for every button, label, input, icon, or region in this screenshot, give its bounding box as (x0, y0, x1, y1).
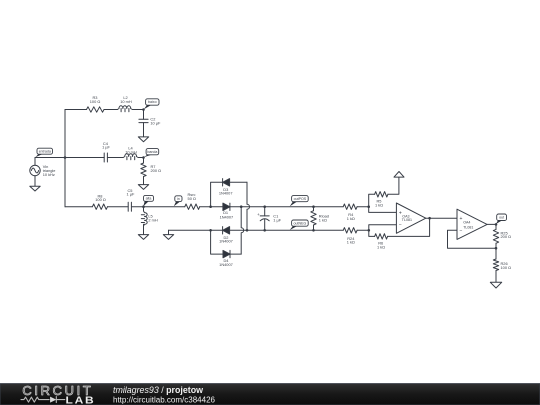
wire D3 loop left riser (211, 182, 223, 207)
resistor R4 (343, 204, 357, 221)
node C1 top (263, 205, 266, 208)
node OA4 output junction (495, 223, 498, 226)
inductor L4 (123, 146, 138, 160)
capacitor C1 (257, 207, 282, 231)
capacitor C4 (102, 141, 110, 162)
svg-text:10 µF: 10 µF (150, 121, 161, 126)
node baixo junction (142, 108, 145, 111)
wire row2 from source (35, 157, 104, 159)
wire D4 riser with hop (241, 207, 244, 254)
flag outPOS (290, 196, 309, 207)
resistor R3 (87, 95, 105, 112)
power VCC arrow (394, 172, 404, 178)
logo CIRCUIT text (22, 383, 93, 398)
diode D3 (219, 179, 233, 196)
node Rload bottom (312, 229, 315, 232)
svg-text:outNEG: outNEG (294, 221, 307, 225)
wire R6 left leg (369, 230, 375, 236)
wire L2-node (133, 109, 144, 111)
svg-text:−: − (459, 228, 462, 234)
flag banda (144, 149, 159, 158)
svg-text:in: in (177, 197, 180, 201)
op-amp OA3 (396, 203, 425, 233)
wire R4 to plus node (357, 206, 369, 208)
resistor R26 (493, 248, 511, 282)
flag alta (143, 195, 153, 206)
svg-text:1 kΩ: 1 kΩ (319, 218, 327, 223)
wire bottom rail left (169, 229, 223, 231)
ground (below R7) (138, 185, 148, 190)
svg-text:outPOS: outPOS (294, 197, 307, 201)
ground (below L5) (138, 235, 148, 240)
wire L5 top lead (143, 207, 145, 211)
ground (below C2) (138, 137, 148, 142)
logo LAB text (66, 396, 96, 405)
svg-text:1 kΩ: 1 kΩ (377, 245, 385, 250)
wire C4-L4 (107, 157, 123, 159)
wire D3 top right (230, 181, 247, 183)
logo resistor glyph (21, 397, 49, 402)
svg-text:1 kΩ: 1 kΩ (347, 216, 355, 221)
svg-text:1N4007: 1N4007 (219, 190, 233, 195)
wire Rsrc-bridge (200, 206, 211, 208)
diode D2 (219, 227, 233, 244)
resistor R8 (92, 193, 107, 209)
wire trunk vertical (64, 110, 66, 207)
svg-text:+: + (459, 216, 462, 222)
voltage source V1 (30, 158, 56, 187)
svg-text:+: + (257, 212, 260, 217)
node Rload top (312, 205, 315, 208)
svg-text:2 mH: 2 mH (148, 217, 157, 222)
resistor R25 (493, 224, 511, 248)
svg-text:100 Ω: 100 Ω (90, 99, 101, 104)
wire minus input (369, 225, 397, 231)
wire R8-C5 (108, 206, 129, 208)
svg-text:entrada: entrada (39, 149, 51, 153)
node D4 riser joins mid (240, 205, 243, 208)
wire bottom rail right (230, 229, 344, 231)
node alta junction (142, 205, 145, 208)
flag entrada (35, 148, 52, 157)
wire bottom rail ground stub (168, 230, 170, 234)
svg-text:1N4007: 1N4007 (220, 215, 234, 220)
wire C2 top lead (143, 110, 145, 120)
svg-text:200 Ω: 200 Ω (151, 168, 162, 173)
svg-text:out: out (499, 216, 504, 220)
node D3 riser joins bottom (246, 229, 249, 232)
svg-text:1 µF: 1 µF (273, 218, 281, 223)
ground (below R26) (490, 282, 501, 288)
svg-text:1N4007: 1N4007 (219, 239, 233, 244)
wire OA4 output (487, 223, 496, 225)
wire row3 left (65, 206, 92, 208)
wire mid rail (230, 206, 343, 208)
diode D4 (219, 250, 233, 267)
resistor R5 (375, 192, 388, 208)
resistor R24 (343, 228, 357, 245)
ground (bottom rail) (163, 235, 173, 240)
flag in (174, 196, 182, 207)
svg-text:10 kHz: 10 kHz (43, 172, 55, 177)
svg-text:−: − (399, 222, 402, 228)
diode D1 (220, 203, 234, 220)
wire row1 left (65, 109, 87, 111)
node OA3 output junction (428, 217, 431, 220)
svg-text:TL081: TL081 (402, 218, 412, 222)
resistor R7 (141, 163, 161, 177)
wire R6 to output riser (388, 218, 430, 236)
banner url line (113, 394, 215, 404)
banner background (0, 384, 540, 405)
wire OA3 out to OA4 (426, 217, 457, 219)
node C1 bottom (263, 229, 266, 232)
svg-text:banda: banda (147, 150, 157, 154)
svg-text:1N4007: 1N4007 (219, 262, 233, 267)
svg-text:OA4: OA4 (463, 221, 470, 225)
wire R5 to VCC (388, 177, 399, 194)
wire D1 left (211, 206, 223, 208)
wire R7 bottom lead (143, 177, 145, 185)
wire R7 top lead (143, 158, 145, 164)
wire R3-L2 (104, 109, 117, 111)
svg-text:100 Ω: 100 Ω (501, 265, 512, 270)
svg-text:100 Ω: 100 Ω (95, 197, 106, 202)
resistor Rsrc (185, 192, 200, 209)
capacitor C5 (126, 188, 134, 211)
svg-text:http://circuitlab.com/c384426: http://circuitlab.com/c384426 (113, 394, 215, 404)
op-amp OA4 (457, 209, 487, 239)
svg-text:50 Ω: 50 Ω (188, 196, 196, 201)
node plus input junction (367, 205, 370, 208)
wire D4 right (230, 253, 241, 255)
node bridge left mid (209, 205, 212, 208)
wire OA4 minus feedback loop (448, 230, 497, 248)
logo diode glyph (50, 397, 65, 403)
node trunk/row2 junction (64, 156, 67, 159)
wire C2 bottom lead (143, 123, 145, 137)
capacitor C2 (139, 117, 161, 126)
svg-text:alta: alta (146, 197, 152, 201)
banner credit line (113, 385, 203, 395)
wire D3 right riser with hop (247, 182, 250, 230)
inductor L2 (117, 95, 132, 112)
node R25-R26 junction (495, 247, 498, 250)
svg-text:200 Ω: 200 Ω (501, 234, 512, 239)
svg-text:1 µF: 1 µF (126, 192, 134, 197)
flag baixo (144, 99, 159, 109)
svg-text:10 mH: 10 mH (120, 99, 132, 104)
svg-text:1 µF: 1 µF (102, 145, 110, 150)
svg-text:LAB: LAB (66, 396, 96, 405)
wire R24 to minus node (357, 229, 369, 231)
wire plus input (369, 207, 397, 213)
resistor Rload (311, 207, 329, 231)
node bridge left bottom (209, 229, 212, 232)
wire L4-node (139, 157, 144, 159)
inductor L5 (141, 211, 158, 226)
flag outNEG (290, 220, 309, 230)
svg-text:1 kΩ: 1 kΩ (347, 240, 355, 245)
wire L5 bottom lead (143, 224, 145, 234)
resistor R6 (375, 234, 388, 250)
wire D4 loop left riser (211, 230, 223, 254)
svg-text:baixo: baixo (148, 100, 157, 104)
node banda junction (142, 156, 145, 159)
flag out (496, 214, 507, 224)
wire C5-node-in-Rsrc (131, 206, 184, 208)
svg-text:10 mH: 10 mH (125, 149, 137, 154)
ground (below V1) (30, 186, 40, 191)
node minus input junction (368, 229, 371, 232)
svg-text:TL081: TL081 (463, 225, 473, 229)
svg-text:1 kΩ: 1 kΩ (375, 202, 383, 207)
wire R5 loop left riser (369, 194, 375, 206)
